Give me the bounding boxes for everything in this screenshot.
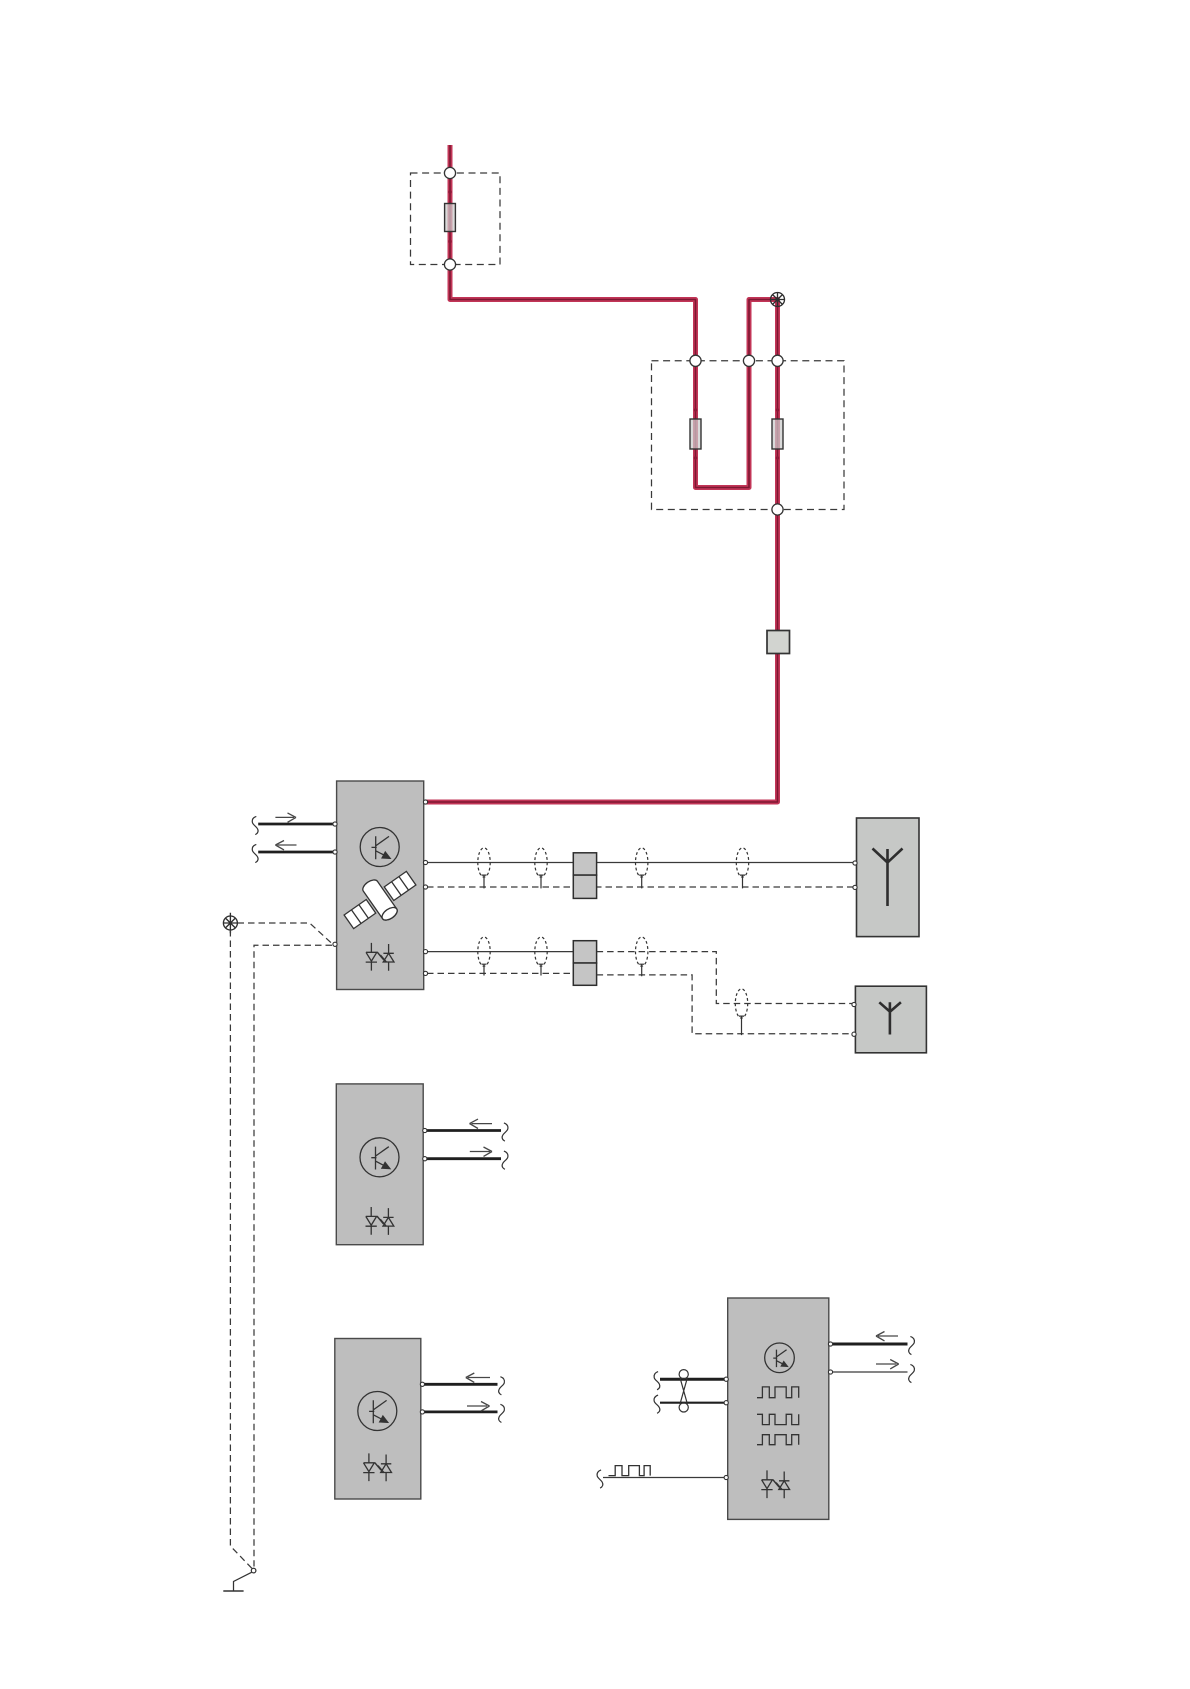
pin U1 right 3 bbox=[423, 950, 427, 954]
wire: antenna 2 screen dashed to module bbox=[597, 975, 853, 1034]
wire: U2 out bottom bbox=[426, 1151, 508, 1169]
wire: antenna 2 dashed to module bbox=[597, 952, 853, 1004]
wire: U4 out bottom right bbox=[832, 1364, 915, 1382]
fuse F1 bbox=[445, 190, 456, 243]
square wave symbol row 1 in U4 bbox=[757, 1387, 799, 1398]
suppression diodes in U4 bbox=[761, 1470, 789, 1498]
module U1 (main control unit) bbox=[337, 781, 424, 990]
fuse F3 bbox=[772, 408, 783, 459]
screen symbol 1b bbox=[535, 848, 547, 889]
arrow right above U4 bottom right wire bbox=[876, 1360, 899, 1369]
module U4 bbox=[728, 1298, 829, 1519]
satellite icon in U1 bbox=[336, 861, 423, 940]
pin U3 right 1 bbox=[420, 1382, 424, 1386]
arrow left above U3 top wire bbox=[466, 1373, 490, 1382]
wire: twisted pair lower into U4 bbox=[654, 1395, 726, 1413]
pin U1 left 1 bbox=[333, 822, 337, 826]
in-line connector pair A bbox=[573, 853, 596, 899]
screen symbol 1c bbox=[636, 848, 648, 889]
terminal on fuse box 1 bottom bbox=[444, 259, 455, 270]
arrow right above U2 bottom wire bbox=[470, 1147, 492, 1156]
pin U1 right 1 bbox=[423, 860, 427, 864]
in-line connector on red wire bbox=[767, 631, 790, 654]
antenna module 2 bbox=[855, 986, 926, 1053]
transistor symbol in U2 bbox=[360, 1138, 399, 1177]
pin U2 right 2 bbox=[423, 1157, 427, 1161]
screen symbol 2c bbox=[636, 937, 648, 976]
wire: twisted pair upper into U4 bbox=[654, 1372, 726, 1390]
screen symbol 2a bbox=[478, 937, 490, 976]
arrow left above U2 top wire bbox=[470, 1119, 493, 1128]
pin U1 left 2 bbox=[333, 850, 337, 854]
suppression diodes in U3 bbox=[363, 1453, 391, 1481]
screen symbol 1d bbox=[736, 848, 748, 889]
pin U4 left 2 bbox=[724, 1401, 728, 1405]
pin U4 left 3 bbox=[724, 1475, 728, 1479]
screen symbol 2d bbox=[735, 989, 747, 1035]
wire: antenna 2 signal solid part bbox=[427, 951, 573, 953]
fuse box 2 (dashed enclosure) bbox=[652, 361, 845, 510]
pin antenna2 1 bbox=[852, 1002, 856, 1006]
transistor symbol in U4 bbox=[765, 1343, 795, 1373]
wire: U2 out top bbox=[426, 1123, 508, 1141]
PWM signal symbol bbox=[609, 1466, 651, 1476]
wire: red battery supply wire main path bbox=[426, 145, 778, 802]
square wave symbol row 2 in U4 bbox=[757, 1414, 799, 1424]
pin U4 right 1 bbox=[828, 1342, 832, 1346]
pin U1 left 3 bbox=[333, 942, 337, 946]
screen symbol 1a bbox=[478, 848, 490, 889]
wire: antenna 1 signal (solid) bbox=[427, 862, 853, 864]
pin antenna1 2 bbox=[853, 885, 857, 889]
terminal fuse box 2 bottom bbox=[772, 504, 783, 515]
transistor symbol in U1 bbox=[360, 828, 399, 867]
module U3 bbox=[335, 1339, 421, 1500]
twisted pair crossing symbol bbox=[679, 1370, 688, 1412]
arrow left above CAN out bbox=[275, 841, 296, 850]
suppression diodes in U1 bbox=[366, 943, 394, 971]
arrow left above U4 top right wire bbox=[876, 1332, 898, 1341]
screen symbol 2b bbox=[535, 937, 547, 976]
antenna symbol 1 bbox=[873, 849, 903, 907]
splice connector node (top right star) bbox=[771, 293, 785, 307]
pin U3 right 2 bbox=[420, 1410, 424, 1414]
switch contact bbox=[234, 1568, 256, 1591]
pin U1 right 2 bbox=[423, 885, 427, 889]
pin antenna2 2 bbox=[852, 1032, 856, 1036]
transistor symbol in U3 bbox=[358, 1392, 397, 1431]
square wave symbol row 3 in U4 bbox=[757, 1435, 799, 1445]
wire: dashed screen return from U1 pin down bbox=[254, 945, 332, 1566]
pin U2 right 1 bbox=[423, 1128, 427, 1132]
antenna symbol 2 bbox=[879, 1002, 901, 1034]
wire: dashed from star down to switch bbox=[230, 930, 252, 1569]
terminal on fuse box 1 top bbox=[444, 167, 455, 178]
pin U1 right 4 bbox=[423, 971, 427, 975]
terminal fuse box 2 right top bbox=[772, 355, 783, 366]
pin U1 red supply bbox=[423, 800, 427, 804]
fuse F2 bbox=[690, 408, 701, 459]
pin antenna1 1 bbox=[853, 861, 857, 865]
fuse box 1 (dashed enclosure) bbox=[411, 173, 501, 265]
terminal fuse box 2 middle top bbox=[743, 355, 754, 366]
pin U4 right 2 bbox=[828, 1370, 832, 1374]
splice node left star bbox=[223, 913, 237, 933]
wire: U3 out top bbox=[424, 1377, 504, 1395]
wire: antenna 1 screen (dashed) bbox=[427, 886, 853, 888]
pin U4 left 1 bbox=[724, 1377, 728, 1381]
wire: CAN in to U1 (left top) bbox=[252, 816, 333, 834]
arrow right above CAN in bbox=[275, 813, 296, 822]
antenna module 1 bbox=[857, 818, 920, 937]
wire: PWM input to U4 bbox=[597, 1470, 725, 1488]
module U2 bbox=[336, 1084, 423, 1245]
wire: U4 out top right bbox=[832, 1336, 915, 1354]
suppression diodes in U2 bbox=[366, 1207, 394, 1235]
wire: U3 out bottom bbox=[424, 1404, 504, 1422]
wire: antenna 2 screen dashed part bbox=[427, 972, 573, 974]
in-line connector pair B bbox=[573, 941, 596, 986]
wire: dashed from star to U1 pin bbox=[238, 923, 333, 944]
wire: CAN out of U1 (left lower) bbox=[252, 844, 333, 862]
terminal fuse box 2 left top bbox=[690, 355, 701, 366]
arrow right above U3 bottom wire bbox=[467, 1402, 490, 1411]
ground bbox=[223, 1590, 243, 1592]
